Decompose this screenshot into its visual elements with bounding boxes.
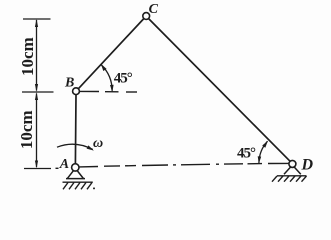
wire link AB (crank)	[74, 95, 77, 164]
ground hatching at D	[272, 176, 307, 182]
svg-text:45°: 45°	[237, 145, 256, 161]
45deg angle arc at D	[259, 141, 268, 163]
svg-text:45°: 45°	[114, 71, 133, 87]
centerline at A-D level (dash-dot)	[56, 163, 290, 168]
ground support at D	[284, 167, 301, 174]
wire link BC (coupler)	[78, 19, 143, 89]
pin joint D	[289, 160, 296, 167]
ground hatching at A	[63, 182, 93, 189]
dashed line at B level	[80, 90, 137, 93]
pin joint A	[72, 164, 79, 171]
svg-text:B: B	[64, 76, 74, 91]
dimension line upper 10cm	[23, 19, 51, 91]
svg-text:ω: ω	[93, 136, 103, 151]
pin joint B	[73, 88, 80, 95]
svg-text:10cm: 10cm	[17, 110, 36, 149]
ground support at A	[66, 171, 85, 179]
wire link CD (rocker)	[149, 19, 290, 162]
svg-text:D: D	[301, 156, 314, 173]
pin joint C	[143, 13, 150, 20]
svg-text:10cm: 10cm	[18, 37, 37, 76]
dimension line lower 10cm	[36, 94, 38, 168]
tick bar at B level	[22, 91, 54, 93]
svg-text:A: A	[59, 157, 69, 172]
45deg angle arc at B	[101, 65, 112, 91]
tick bar at A level	[24, 168, 51, 170]
svg-text:C: C	[149, 2, 159, 17]
omega rotation arc at A	[57, 144, 93, 149]
